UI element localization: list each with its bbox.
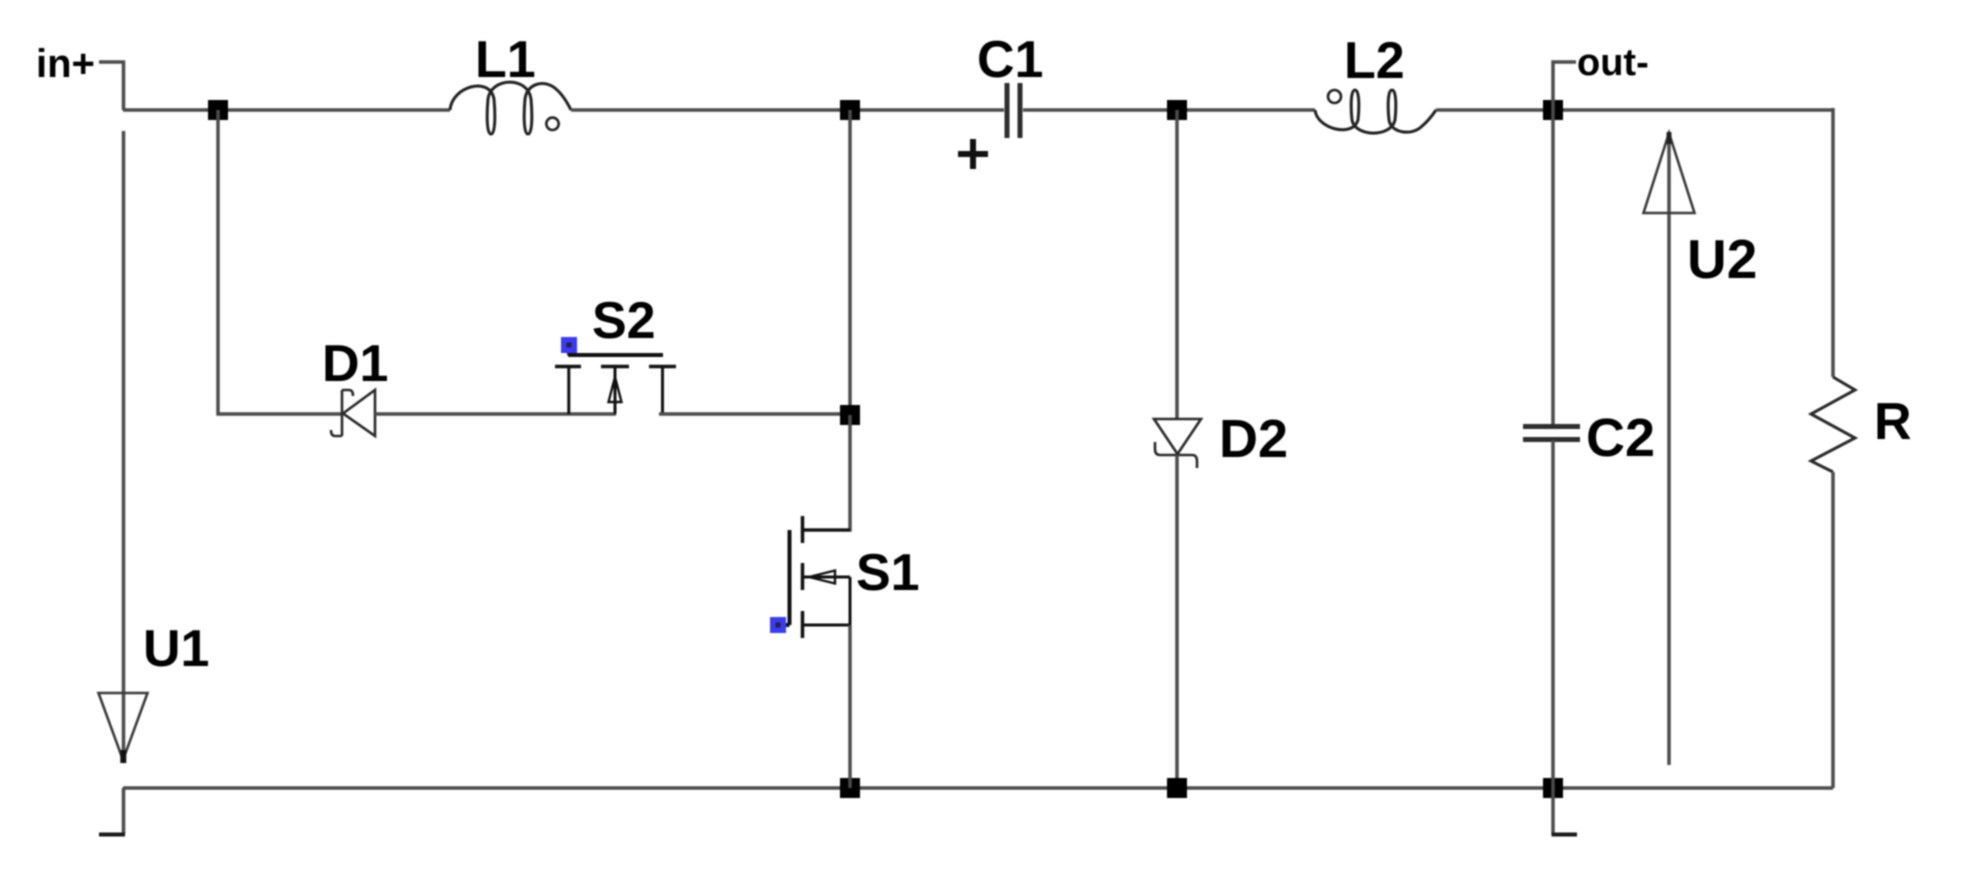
wire node A down to D1	[218, 110, 341, 414]
node G junction bottom	[1543, 778, 1563, 798]
svg-text:C1: C1	[977, 31, 1043, 89]
wire right rail down to R	[1831, 108, 1835, 377]
label U2	[1687, 228, 1757, 290]
resistor R	[1811, 377, 1855, 472]
label R	[1874, 393, 1912, 451]
wire D1 to S2	[375, 412, 616, 416]
mosfet S2	[555, 337, 676, 414]
wire node H down to S1	[803, 415, 850, 530]
svg-text:S2: S2	[592, 292, 656, 350]
label S2	[592, 292, 656, 350]
node H junction mid	[840, 405, 860, 425]
wire node C down to D2	[1175, 110, 1179, 419]
wire bottom rail	[123, 786, 1833, 790]
label S1	[856, 544, 920, 602]
wire C1 to L2	[1023, 108, 1315, 112]
node B junction top	[840, 100, 860, 120]
node E junction bottom	[840, 778, 860, 798]
label out-	[1577, 42, 1649, 84]
wire node B down to S1 drain node	[848, 110, 852, 415]
wire node D down to C2	[1551, 110, 1555, 426]
label L1	[475, 31, 536, 89]
svg-text:in+: in+	[36, 42, 95, 86]
diode D2	[1154, 419, 1201, 468]
svg-text:U1: U1	[143, 620, 209, 678]
wire C2 to bottom rail	[1551, 440, 1555, 788]
terminal bracket out-	[1553, 62, 1576, 110]
capacitor C1	[1007, 83, 1020, 138]
wire D2 to bottom rail	[1175, 455, 1179, 788]
svg-text:C2: C2	[1586, 408, 1655, 468]
inductor L1	[450, 82, 571, 134]
capacitor C2	[1523, 427, 1580, 440]
svg-text:S1: S1	[856, 544, 920, 602]
polarity plus of C1	[958, 139, 988, 169]
wire L1 to C1	[571, 108, 1004, 112]
wire S1 source to bottom rail	[848, 625, 852, 788]
label U1	[143, 620, 209, 678]
wire R to bottom rail	[1831, 472, 1835, 788]
svg-text:D2: D2	[1219, 409, 1288, 469]
label C1	[977, 31, 1043, 89]
mosfet S1	[770, 516, 850, 638]
wire S2 to node H	[659, 412, 850, 416]
svg-text:D1: D1	[322, 335, 388, 393]
diode D1	[331, 390, 375, 436]
svg-text:out-: out-	[1577, 42, 1649, 84]
label C2	[1586, 408, 1655, 468]
terminal bracket bottom right	[1552, 788, 1578, 835]
svg-text:L1: L1	[475, 31, 536, 89]
svg-text:L2: L2	[1344, 32, 1405, 90]
svg-text:U2: U2	[1687, 228, 1757, 290]
label in+	[36, 42, 95, 86]
wire top rail left	[123, 108, 450, 112]
node F junction bottom	[1167, 778, 1187, 798]
label L2	[1344, 32, 1405, 90]
voltage source U1 arrow	[99, 131, 148, 763]
terminal bracket in+	[99, 62, 124, 110]
terminal bracket bottom left	[99, 788, 125, 835]
label D2	[1219, 409, 1288, 469]
node C junction top	[1167, 100, 1187, 120]
voltage arrow U2	[1644, 132, 1695, 765]
svg-text:R: R	[1874, 393, 1912, 451]
node D junction top	[1543, 100, 1563, 120]
label D1	[322, 335, 388, 393]
wire L2 to right corner	[1436, 108, 1833, 112]
inductor L2	[1315, 90, 1436, 133]
node A junction	[208, 100, 228, 120]
